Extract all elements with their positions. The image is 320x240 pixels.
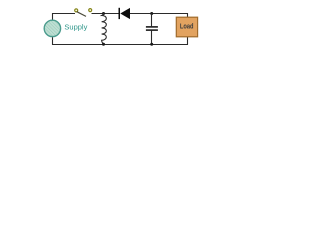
label Supply <box>64 22 87 31</box>
wire left vertical (supply leads) <box>52 13 54 45</box>
switch S1 terminal 2 <box>89 9 92 12</box>
node C junction dot (inductor bottom) <box>102 43 105 46</box>
switch S1 terminal 1 <box>75 9 78 12</box>
wire right vertical (load leads) <box>187 13 189 45</box>
diode D1 cathode bar <box>119 8 121 19</box>
wire top rail left segment <box>52 13 75 15</box>
node A junction dot (inductor top) <box>102 12 105 15</box>
load RL box <box>176 17 197 37</box>
switch S1 blade <box>77 12 86 17</box>
supply source V1 circle <box>44 20 60 36</box>
inductor L1 vertical coil <box>102 13 107 45</box>
capacitor C1 <box>146 14 158 45</box>
wire bottom rail <box>52 44 188 46</box>
node B junction dot (capacitor top) <box>150 12 153 15</box>
wire top rail right segment <box>130 13 188 15</box>
svg-text:Supply: Supply <box>64 22 87 31</box>
svg-text:Load: Load <box>180 22 194 31</box>
label Load <box>180 22 194 31</box>
diode D1 triangle (pointing left) <box>120 8 130 19</box>
wire top rail mid segment <box>92 13 119 15</box>
node D junction dot (capacitor bottom) <box>150 43 153 46</box>
